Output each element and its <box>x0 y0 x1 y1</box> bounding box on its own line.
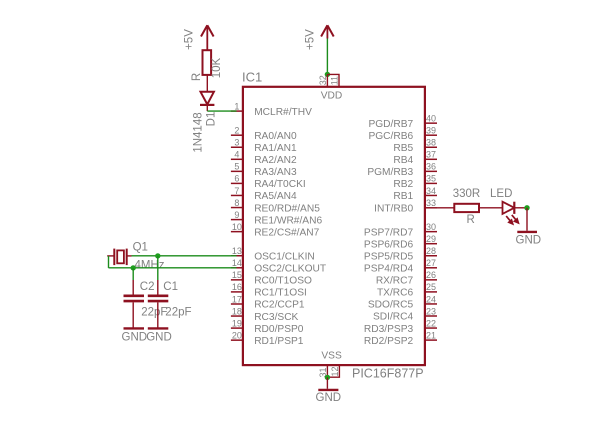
pin 24 SDO/RC5 stub <box>424 303 437 305</box>
svg-text:2: 2 <box>234 126 239 136</box>
svg-text:GND: GND <box>516 235 542 247</box>
wire VSS to ground <box>326 377 328 388</box>
svg-text:20: 20 <box>232 330 242 340</box>
svg-text:22: 22 <box>426 318 436 328</box>
svg-text:GND: GND <box>316 392 342 404</box>
pin 12 VSS stub (staple) <box>327 365 339 377</box>
svg-text:RC0/T1OSO: RC0/T1OSO <box>254 276 312 287</box>
svg-text:23: 23 <box>426 306 436 316</box>
pin 7 RA5/AN4 stub <box>231 194 244 196</box>
svg-text:29: 29 <box>426 234 436 244</box>
resistor R 330R body <box>454 204 479 212</box>
svg-text:3: 3 <box>234 138 239 148</box>
svg-text:RA5/AN4: RA5/AN4 <box>254 191 297 202</box>
pin 31 VSS stub <box>326 365 328 377</box>
svg-text:330R: 330R <box>453 188 481 200</box>
svg-text:+5V: +5V <box>183 29 195 50</box>
junction VSS node <box>325 375 330 380</box>
pin 17 RC2/CCP1 stub <box>231 303 244 305</box>
pin 11 VDD stub (staple) <box>327 74 339 86</box>
svg-text:+5V: +5V <box>305 29 317 50</box>
svg-text:10K: 10K <box>211 57 223 78</box>
pin 18 RC3/SCK stub <box>231 315 244 317</box>
pin 14 OSC2/CLKOUT stub <box>231 267 244 269</box>
supply +5V symbol (top, over VDD) arrowhead <box>321 25 334 36</box>
crystal Q1 right plate <box>126 249 128 266</box>
wire resistor to LED <box>479 207 503 209</box>
svg-text:VDD: VDD <box>321 91 343 102</box>
svg-text:21: 21 <box>426 330 436 340</box>
svg-text:24: 24 <box>426 294 436 304</box>
svg-text:PSP5/RD5: PSP5/RD5 <box>364 251 414 262</box>
wire OSC2 net: crystal left down <box>108 256 110 268</box>
svg-text:RB1: RB1 <box>393 191 413 202</box>
svg-text:6: 6 <box>234 174 239 184</box>
svg-text:PSP4/RD4: PSP4/RD4 <box>364 264 414 275</box>
svg-text:GND: GND <box>122 331 148 343</box>
svg-text:17: 17 <box>232 294 242 304</box>
svg-text:IC1: IC1 <box>242 70 262 85</box>
svg-text:PSP6/RD6: PSP6/RD6 <box>364 239 414 250</box>
pin 30 PSP7/RD7 stub <box>424 231 437 233</box>
crystal Q1 left lead <box>107 255 114 257</box>
wire C1 top (net) <box>157 256 159 280</box>
pin 27 PSP4/RD4 stub <box>424 267 437 269</box>
pin 15 RC0/T1OSO stub <box>231 279 244 281</box>
pin 20 RD1/PSP1 stub <box>231 339 244 341</box>
svg-text:RE1/WR#/AN6: RE1/WR#/AN6 <box>254 215 322 226</box>
pin 37 RB4 stub <box>424 158 437 160</box>
svg-text:25: 25 <box>426 282 436 292</box>
svg-text:32: 32 <box>318 75 328 85</box>
svg-text:R: R <box>191 73 203 81</box>
capacitor C2 top lead <box>132 280 134 295</box>
svg-text:MCLR#/THV: MCLR#/THV <box>254 107 312 118</box>
svg-text:12: 12 <box>330 366 340 376</box>
svg-text:PGD/RB7: PGD/RB7 <box>368 119 413 130</box>
svg-text:22pF: 22pF <box>141 306 167 318</box>
svg-text:38: 38 <box>426 138 436 148</box>
wire +5V to VDD pins (net) <box>326 39 328 75</box>
svg-text:37: 37 <box>426 150 436 160</box>
junction OSC1/C1 <box>155 253 160 258</box>
wire resistor to diode <box>206 75 208 92</box>
supply +5V symbol shaft <box>326 27 328 39</box>
wire pin 33 to resistor 330R <box>437 207 454 209</box>
svg-text:INT/RB0: INT/RB0 <box>374 204 413 215</box>
svg-text:RA4/T0CKI: RA4/T0CKI <box>254 179 306 190</box>
svg-text:RD0/PSP0: RD0/PSP0 <box>254 324 304 335</box>
svg-text:R: R <box>466 214 474 226</box>
capacitor C1 top lead <box>157 280 159 295</box>
pin 22 RD3/PSP3 stub <box>424 327 437 329</box>
svg-text:5: 5 <box>234 162 239 172</box>
svg-text:OSC1/CLKIN: OSC1/CLKIN <box>254 251 315 262</box>
wire OSC2 net: across to pin 14 <box>109 267 237 269</box>
wire LED to ground node <box>514 207 527 209</box>
svg-text:8: 8 <box>234 198 239 208</box>
svg-text:4MHz: 4MHz <box>135 260 165 272</box>
svg-text:SDI/RC4: SDI/RC4 <box>373 312 414 323</box>
pin 21 RD2/PSP2 stub <box>424 339 437 341</box>
pin 36 PGM/RB3 stub <box>424 170 437 172</box>
capacitor C2 plates <box>124 294 145 297</box>
svg-text:1N4148: 1N4148 <box>192 112 204 152</box>
svg-text:C2: C2 <box>140 281 155 293</box>
svg-text:SDO/RC5: SDO/RC5 <box>368 300 414 311</box>
svg-text:14: 14 <box>232 258 242 268</box>
pin 33 INT/RB0 stub <box>424 207 437 209</box>
svg-text:26: 26 <box>426 270 436 280</box>
svg-text:7: 7 <box>234 186 239 196</box>
svg-text:36: 36 <box>426 162 436 172</box>
pin 34 RB1 stub <box>424 194 437 196</box>
diode D1 cathode bar <box>200 104 214 106</box>
junction VDD node <box>325 72 330 77</box>
svg-text:19: 19 <box>232 318 242 328</box>
pin 2 RA0/AN0 stub <box>231 134 244 136</box>
crystal Q1 left plate <box>113 249 115 266</box>
supply +5V symbol (left, above R) arrowhead <box>201 25 214 36</box>
svg-text:15: 15 <box>232 270 242 280</box>
ground symbol under VSS <box>318 389 338 391</box>
svg-text:27: 27 <box>426 258 436 268</box>
resistor R 10K body <box>203 50 212 75</box>
svg-text:RB5: RB5 <box>393 143 413 154</box>
svg-text:RE0/RD#/AN5: RE0/RD#/AN5 <box>254 203 320 214</box>
pin 3 RA1/AN1 stub <box>231 146 244 148</box>
svg-text:RA0/AN0: RA0/AN0 <box>254 131 297 142</box>
svg-text:PSP7/RD7: PSP7/RD7 <box>364 227 414 238</box>
svg-text:13: 13 <box>232 246 242 256</box>
pin 38 RB5 stub <box>424 146 437 148</box>
svg-text:40: 40 <box>426 113 436 123</box>
pin 40 PGD/RB7 stub <box>424 122 437 124</box>
LED emission arrow 1 <box>506 216 513 225</box>
pin 6 RA4/T0CKI stub <box>231 182 244 184</box>
svg-text:RD1/PSP1: RD1/PSP1 <box>254 336 304 347</box>
IC U1 : IC1 PIC16F877P body outline <box>243 87 425 365</box>
svg-text:RX/RC7: RX/RC7 <box>376 276 414 287</box>
svg-text:RA3/AN3: RA3/AN3 <box>254 167 297 178</box>
pin 1 MCLR#/THV stub <box>231 110 244 112</box>
svg-text:RA2/AN2: RA2/AN2 <box>254 155 297 166</box>
pin 10 RE2/CS#/AN7 stub <box>231 231 244 233</box>
crystal Q1 right lead <box>127 255 132 257</box>
svg-text:C1: C1 <box>163 281 178 293</box>
capacitor C1 plates <box>148 294 169 297</box>
wire diode to MCLR pin 1 <box>207 110 236 112</box>
pin 4 RA2/AN2 stub <box>231 158 244 160</box>
svg-text:18: 18 <box>232 306 242 316</box>
pin 39 PGC/RB6 stub <box>424 134 437 136</box>
diode D1 triangle <box>201 92 214 105</box>
svg-text:39: 39 <box>426 126 436 136</box>
svg-text:30: 30 <box>426 222 436 232</box>
pin 13 OSC1/CLKIN stub <box>231 255 244 257</box>
svg-text:9: 9 <box>234 210 239 220</box>
wire C2 top (net) <box>132 268 134 280</box>
svg-text:RD3/PSP3: RD3/PSP3 <box>364 324 414 335</box>
LED cathode bar <box>513 202 515 214</box>
svg-text:34: 34 <box>426 186 436 196</box>
svg-text:VSS: VSS <box>321 351 342 362</box>
pin 16 RC1/T1OSI stub <box>231 291 244 293</box>
svg-text:RC1/T1OSI: RC1/T1OSI <box>254 288 307 299</box>
svg-text:10: 10 <box>232 222 242 232</box>
svg-text:16: 16 <box>232 282 242 292</box>
svg-text:LED: LED <box>490 188 512 200</box>
svg-text:Q1: Q1 <box>133 242 148 254</box>
svg-text:RD2/PSP2: RD2/PSP2 <box>364 336 414 347</box>
svg-text:PGM/RB3: PGM/RB3 <box>367 167 413 178</box>
junction OSC2/C2 <box>131 265 136 270</box>
pin 28 PSP5/RD5 stub <box>424 255 437 257</box>
pin 23 SDI/RC4 stub <box>424 315 437 317</box>
pin 26 RX/RC7 stub <box>424 279 437 281</box>
junction LED/GND node <box>524 205 529 210</box>
svg-text:RE2/CS#/AN7: RE2/CS#/AN7 <box>254 227 319 238</box>
pin 9 RE1/WR#/AN6 stub <box>231 219 244 221</box>
svg-text:TX/RC6: TX/RC6 <box>377 288 414 299</box>
wire diode to net <box>206 105 208 111</box>
LED triangle <box>503 202 515 214</box>
svg-text:33: 33 <box>426 198 436 208</box>
pin 5 RA3/AN3 stub <box>231 170 244 172</box>
crystal Q1 body <box>117 250 124 263</box>
svg-text:1: 1 <box>234 101 239 111</box>
svg-text:11: 11 <box>330 76 340 85</box>
svg-text:D1: D1 <box>206 112 218 127</box>
svg-text:PIC16F877P: PIC16F877P <box>352 367 424 381</box>
svg-text:35: 35 <box>426 174 436 184</box>
svg-text:RC3/SCK: RC3/SCK <box>254 312 298 323</box>
pin 35 RB2 stub <box>424 182 437 184</box>
ground symbol under C2 <box>124 327 145 329</box>
supply +5V shaft/wire to resistor <box>206 27 208 51</box>
svg-text:RA1/AN1: RA1/AN1 <box>254 143 297 154</box>
svg-text:RC2/CCP1: RC2/CCP1 <box>254 300 305 311</box>
pin 32 VDD stub <box>326 74 328 86</box>
capacitor C2 bottom lead <box>132 302 134 328</box>
LED emission arrow 2 <box>512 215 519 224</box>
svg-text:PGC/RB6: PGC/RB6 <box>368 131 413 142</box>
svg-text:28: 28 <box>426 246 436 256</box>
pin 29 PSP6/RD6 stub <box>424 243 437 245</box>
svg-text:GND: GND <box>146 331 172 343</box>
ground symbol under LED <box>517 231 537 233</box>
pin 25 TX/RC6 stub <box>424 291 437 293</box>
pin 19 RD0/PSP0 stub <box>231 327 244 329</box>
wire down to ground <box>526 208 528 231</box>
svg-text:22pF: 22pF <box>165 306 191 318</box>
svg-text:RB4: RB4 <box>393 155 413 166</box>
svg-text:OSC2/CLKOUT: OSC2/CLKOUT <box>254 264 326 275</box>
svg-text:4: 4 <box>234 150 239 160</box>
wire OSC1 net: crystal right to pin 13 <box>132 255 237 257</box>
pin 8 RE0/RD#/AN5 stub <box>231 207 244 209</box>
capacitor C1 bottom lead <box>157 302 159 328</box>
svg-text:RB2: RB2 <box>393 179 413 190</box>
ground symbol under C1 <box>148 327 169 329</box>
